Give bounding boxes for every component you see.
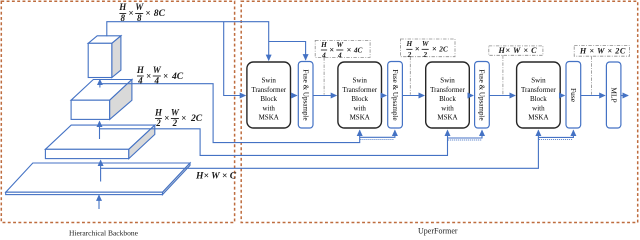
svg-text:×: × (146, 71, 151, 81)
svg-text:2: 2 (422, 50, 427, 59)
svg-text:MSKA: MSKA (437, 114, 457, 122)
svg-text:Transformer: Transformer (430, 86, 465, 94)
svg-text:4: 4 (321, 51, 326, 60)
wire: H/4 lateral bus under panels into Swin2 / F&U2 bottoms (100, 80, 395, 143)
backbone cube H/8 x W/8 (88, 36, 121, 78)
Swin Transformer block 1 (247, 62, 291, 128)
wire: Swin3 to F&U3 (470, 95, 473, 97)
svg-text:MSKA: MSKA (528, 114, 548, 122)
wire: input arrow into bottom slab (98, 195, 100, 209)
label box H/4 x W/4 x 4C (dash-dot) with leader (315, 40, 370, 95)
svg-text:Block: Block (351, 95, 368, 103)
svg-text:H: H (154, 108, 163, 118)
MLP box (606, 62, 621, 128)
wire: H/8 feed into Swin1 left (224, 22, 246, 96)
wire: F&U1 to Swin2 (313, 95, 336, 97)
svg-text:H: H (136, 65, 145, 75)
svg-text:W: W (422, 39, 429, 48)
Fuse box (566, 62, 581, 129)
dashed panel: UperFormer (241, 1, 638, 222)
svg-text:H: H (118, 2, 127, 12)
svg-text:×: × (163, 71, 168, 81)
svg-text:with: with (262, 104, 275, 112)
svg-text:with: with (532, 104, 545, 112)
Fuse & Upsample 1 (298, 62, 313, 129)
svg-text:Transformer: Transformer (342, 86, 377, 94)
svg-text:2C: 2C (190, 113, 203, 124)
svg-text:×: × (415, 45, 420, 54)
wire: H/2 lateral bus into Swin3 / F&U3 bottoms (100, 121, 483, 155)
wire: Swin2 to F&U2 (382, 95, 386, 97)
label H/4 x W/4 x 4C (backbone) (136, 65, 184, 86)
svg-text:×: × (181, 113, 186, 123)
svg-text:Swin: Swin (531, 77, 546, 85)
wire: Swin1 to F&U1 (291, 95, 297, 97)
Swin Transformer block 3 (426, 62, 470, 128)
svg-text:MSKA: MSKA (259, 114, 279, 122)
svg-text:MSKA: MSKA (350, 114, 370, 122)
svg-text:UperFormer: UperFormer (418, 226, 458, 235)
svg-text:×: × (128, 8, 133, 18)
svg-text:2C: 2C (438, 45, 448, 54)
Fuse & Upsample 3 (475, 62, 490, 129)
svg-text:Hierarchical Backbone: Hierarchical Backbone (69, 228, 139, 236)
wire: Swin4 to Fuse (561, 95, 565, 97)
label box HxWxC (dash-dot) with leader (489, 46, 543, 95)
svg-text:×: × (329, 45, 334, 54)
svg-text:Block: Block (260, 95, 277, 103)
svg-text:W: W (337, 40, 344, 49)
svg-text:H × W × 2C: H × W × 2C (579, 46, 626, 55)
wire: F&U3 to Swin4 (490, 95, 516, 97)
svg-text:8: 8 (137, 13, 142, 23)
svg-text:Transformer: Transformer (521, 86, 556, 94)
svg-text:4C: 4C (353, 45, 363, 54)
Swin Transformer block 2 (338, 62, 382, 128)
svg-text:W: W (153, 65, 162, 75)
svg-text:H: H (320, 40, 327, 49)
svg-text:W: W (135, 2, 144, 12)
svg-text:Block: Block (530, 95, 547, 103)
svg-text:with: with (441, 104, 454, 112)
svg-text:×: × (164, 113, 169, 123)
svg-text:with: with (353, 104, 366, 112)
svg-text:4: 4 (337, 51, 342, 60)
Fuse & Upsample 2 (388, 62, 403, 129)
label H/8 x W/8 x 8C (118, 2, 165, 23)
svg-text:2: 2 (172, 118, 178, 128)
svg-text:×: × (432, 45, 437, 54)
dashed panel: Hierarchical Backbone (1, 1, 234, 222)
svg-text:Fuse & Upsample: Fuse & Upsample (478, 69, 486, 120)
svg-text:4: 4 (154, 76, 160, 86)
label box H/2 x W/2 x 2C (dash-dot) with leader (401, 39, 456, 95)
backbone box H/4 x W/4 (71, 80, 132, 120)
svg-text:H: H (406, 39, 413, 48)
svg-text:Fuse & Upsample: Fuse & Upsample (301, 69, 309, 120)
svg-text:Fuse & Upsample: Fuse & Upsample (391, 69, 399, 120)
svg-text:Transformer: Transformer (251, 86, 286, 94)
wire: Fuse to MLP (581, 95, 605, 97)
label H/2 x W/2 x 2C (backbone) (154, 108, 203, 129)
svg-text:Block: Block (439, 95, 456, 103)
wire: MLP output (621, 95, 628, 97)
backbone slab HxWxC (bottom, thin plate) (6, 163, 190, 195)
wire: H/8 lateral from pyramid top to Swin1 top and Fuse&Upsample1 top (107, 22, 306, 61)
svg-text:2: 2 (407, 50, 412, 59)
svg-text:Swin: Swin (352, 77, 367, 85)
svg-text:×: × (347, 45, 352, 54)
wire: F&U2 to Swin3 (403, 95, 425, 97)
backbone slab H/2 x W/2 (45, 125, 154, 159)
wire: HxWxC lateral bus into Swin4 / Fuse bottoms (101, 130, 574, 181)
svg-text:2: 2 (155, 118, 161, 128)
svg-text:H× W × C: H× W × C (195, 170, 237, 181)
svg-text:Fuse: Fuse (569, 88, 578, 103)
svg-text:8C: 8C (154, 8, 166, 19)
svg-text:8: 8 (121, 13, 126, 23)
svg-text:H× W × C: H× W × C (497, 46, 537, 55)
Swin Transformer block 4 (517, 62, 561, 128)
label box HxWx2C (dash-dot) with leader (574, 46, 629, 95)
svg-text:×: × (145, 8, 150, 18)
svg-text:4C: 4C (171, 71, 184, 82)
svg-text:4: 4 (137, 76, 143, 86)
svg-text:MLP: MLP (609, 87, 618, 102)
svg-text:Swin: Swin (440, 77, 455, 85)
svg-text:Swin: Swin (261, 77, 276, 85)
svg-text:W: W (171, 108, 180, 118)
